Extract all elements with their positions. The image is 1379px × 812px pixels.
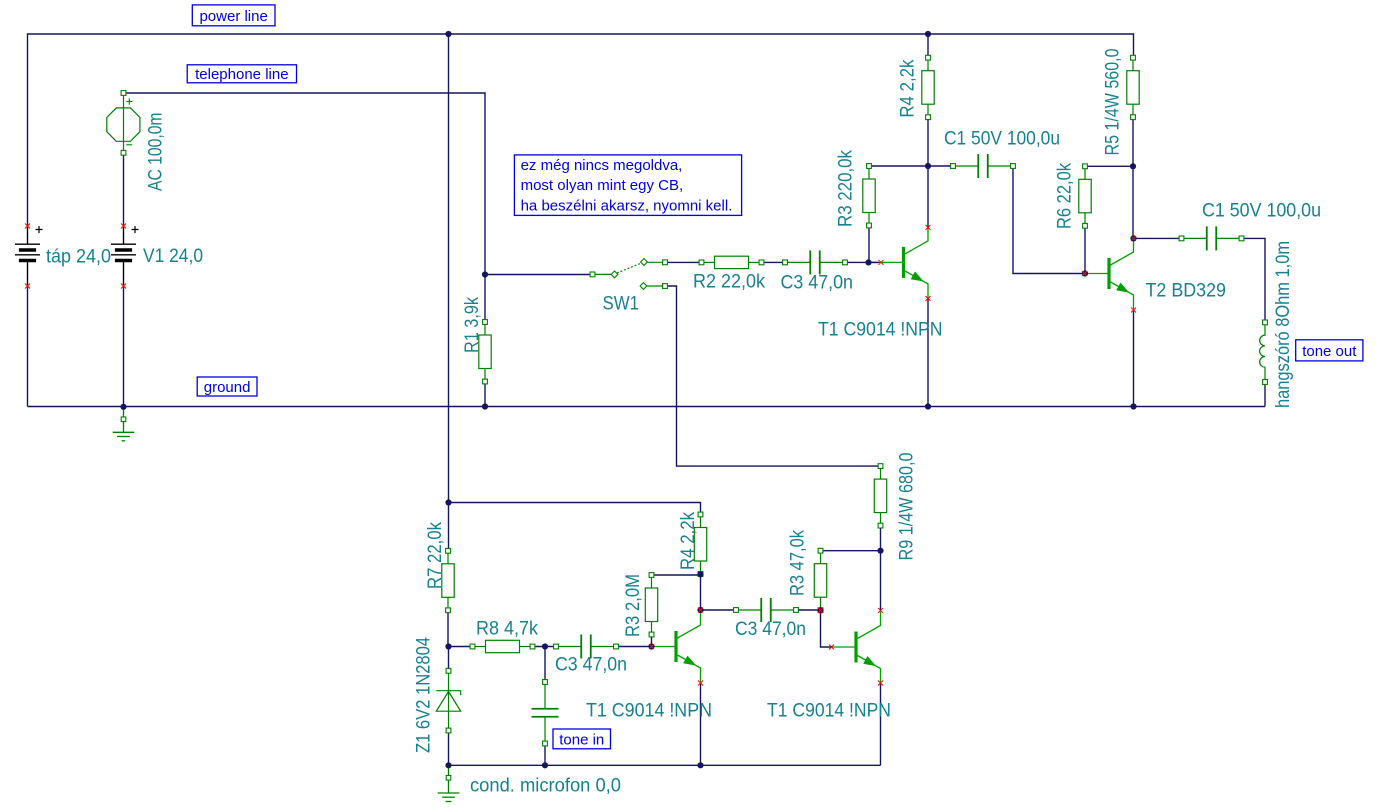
svg-text:R6 22,0k: R6 22,0k <box>1055 163 1076 229</box>
wire R3 top to node <box>652 574 701 576</box>
junction node 7 <box>1130 235 1136 241</box>
pin mark x 17 <box>818 608 823 613</box>
junction node 6 <box>1130 163 1136 169</box>
wire T1 emitter to ground <box>927 299 929 407</box>
svg-text:AC 100,0m: AC 100,0m <box>146 113 167 192</box>
wire R3 to node <box>869 165 928 167</box>
wire R5 bottom to T2 collector node <box>1132 117 1134 238</box>
wire R4 top to power line <box>927 34 929 58</box>
capacitor C1 50V 100,0u interstage <box>953 154 1013 178</box>
wire R9 to node <box>880 526 882 551</box>
svg-text:R4 2,2k: R4 2,2k <box>898 59 919 117</box>
junction node 5 <box>925 163 931 169</box>
svg-text:most olyan mint egy CB,: most olyan mint egy CB, <box>521 177 684 194</box>
net label tone out <box>1296 340 1363 361</box>
svg-text:telephone line: telephone line <box>195 66 288 83</box>
AC source AC 100,0m <box>107 93 140 153</box>
wire R6 bottom to T2 base node <box>1084 226 1086 274</box>
resistor R9 1/4W 680,0 <box>874 466 886 525</box>
zener diode Z1 6V2 1N2804 <box>436 671 460 731</box>
wire ground line <box>28 406 1266 408</box>
wire vertical bus to lower stage <box>448 34 450 503</box>
svg-text:R5 1/4W 560,0: R5 1/4W 560,0 <box>1103 49 1124 156</box>
resistor R7 22,0k <box>442 551 454 611</box>
wire C3 to R3 node <box>796 609 821 611</box>
pin mark x 6 <box>926 225 931 230</box>
pin mark x 16 <box>878 681 883 686</box>
svg-text:T1 C9014 !NPN: T1 C9014 !NPN <box>767 701 891 722</box>
capacitor C3 47,0n coupling <box>785 250 845 274</box>
wire R4 bottom to node <box>927 117 929 166</box>
capacitor C3 47,0n lower interstage <box>736 598 796 622</box>
resistor R3 220,0k <box>863 166 875 226</box>
wire Q2 collector node to C3 <box>701 609 737 611</box>
pin mark x 5 <box>879 260 884 265</box>
pin mark x 7 <box>926 296 931 301</box>
wire R3 bottom to Q2 base node <box>651 635 653 647</box>
wire R7 to R8 node <box>447 610 449 646</box>
net label ground <box>197 377 257 396</box>
svg-text:R9 1/4W 680,0: R9 1/4W 680,0 <box>897 453 918 561</box>
svg-text:tone out: tone out <box>1302 343 1357 360</box>
ground symbol V1 <box>113 407 135 441</box>
wire V1 battery to ground <box>123 286 125 407</box>
svg-text:ez még nincs megoldva,: ez még nincs megoldva, <box>521 157 683 174</box>
svg-text:cond. microfon 0,0: cond. microfon 0,0 <box>470 776 621 797</box>
svg-text:ha beszélni akarsz, nyomni kel: ha beszélni akarsz, nyomni kell. <box>521 198 733 215</box>
resistor R5 1/4W 560,0 <box>1127 58 1139 117</box>
svg-text:tone in: tone in <box>559 731 604 748</box>
wire R9 node to Q3 collector <box>880 551 882 611</box>
wire R3 bottom to T1 base node <box>869 226 879 262</box>
junction node 21 <box>445 762 451 768</box>
svg-text:R2 22,0k: R2 22,0k <box>693 271 765 292</box>
svg-text:R8 4,7k: R8 4,7k <box>476 619 538 640</box>
svg-text:T2 BD329: T2 BD329 <box>1146 281 1227 302</box>
wire Q3 emitter to bottom rail <box>880 683 882 765</box>
battery V1 24,0 <box>111 226 139 286</box>
wire node to C1 <box>928 165 953 167</box>
junction node 8 <box>1082 270 1088 276</box>
capacitor C3 47,0n mic coupling <box>556 635 616 659</box>
svg-text:hangszóró 8Ohm 1,0m: hangszóró 8Ohm 1,0m <box>1273 241 1294 408</box>
wire C3 to T1 base node <box>845 261 879 263</box>
wire node to Z1 <box>448 647 450 671</box>
wire C3 to Q2 base node <box>616 646 652 648</box>
switch SW1 <box>593 262 666 286</box>
junction node 4 <box>865 259 871 265</box>
ground symbol lower <box>438 765 460 801</box>
pin mark x 11 <box>649 644 654 649</box>
junction node 22 <box>542 762 548 768</box>
svg-text:C1 50V 100,0u: C1 50V 100,0u <box>944 129 1060 150</box>
pin mark x 14 <box>829 645 834 650</box>
junction node 16 <box>648 643 654 649</box>
capacitor tone in <box>532 682 559 744</box>
wire R8 to C3 node <box>533 646 557 648</box>
pin mark x 8 <box>1082 271 1087 276</box>
wire R3 top to R9 node <box>821 550 881 552</box>
note box annotation <box>514 155 741 216</box>
junction node 10 <box>482 403 488 409</box>
junction node 23 <box>697 762 703 768</box>
resistor R6 22,0k <box>1079 166 1091 226</box>
junction node 1 <box>445 31 451 37</box>
resistor R8 4,7k <box>473 640 533 652</box>
net label telephone line <box>187 65 296 83</box>
wire R5 R6 node <box>1085 165 1133 167</box>
wire T2 emitter to ground <box>1133 310 1135 407</box>
wire tap battery to ground <box>27 286 29 407</box>
svg-text:Z1 6V2 1N2804: Z1 6V2 1N2804 <box>414 637 435 753</box>
junction node 14 <box>445 643 451 649</box>
wire power line <box>28 34 1134 226</box>
wire node to Q3 base <box>821 610 832 647</box>
wire bottom rail <box>449 764 881 766</box>
junction node 13 <box>445 499 451 505</box>
resistor R4 2,2k top <box>922 58 934 117</box>
pin mark x 10 <box>1131 308 1136 313</box>
pin mark x 2 <box>25 284 30 289</box>
wire node to R7 <box>448 503 450 551</box>
svg-text:C3 47,0n: C3 47,0n <box>781 273 854 294</box>
wire lower stage top rail <box>449 503 701 515</box>
wire C1 out to speaker <box>1242 238 1266 322</box>
svg-text:R3 47,0k: R3 47,0k <box>788 530 809 596</box>
svg-text:táp 24,0: táp 24,0 <box>46 247 111 268</box>
junction node 2 <box>925 31 931 37</box>
transistor T1 C9014 upper <box>879 227 928 298</box>
resistor R2 22,0k <box>702 256 762 268</box>
svg-text:SW1: SW1 <box>603 294 640 315</box>
wire R8 node left <box>449 646 473 648</box>
svg-text:R7 22,0k: R7 22,0k <box>425 522 446 589</box>
svg-text:C3 47,0n: C3 47,0n <box>555 655 627 676</box>
pin mark x 1 <box>25 224 30 229</box>
wire SW1 throw1 to R2 <box>667 261 702 263</box>
wire node to mic capacitor <box>544 647 546 683</box>
speaker hangszoro 8Ohm <box>1260 322 1265 382</box>
transistor T1 C9014 lower second <box>832 612 881 683</box>
wire node to SW1 common <box>485 274 591 276</box>
svg-text:V1 24,0: V1 24,0 <box>143 246 203 267</box>
svg-text:C3 47,0n: C3 47,0n <box>735 619 806 640</box>
net label tone in <box>553 729 611 749</box>
wire SW1 throw2 to lower stage <box>667 286 881 466</box>
wire Q2 emitter to bottom rail <box>700 683 702 765</box>
svg-text:power line: power line <box>199 8 267 25</box>
junction node 20 <box>877 548 883 554</box>
battery tap 24,0 <box>15 226 43 286</box>
pin mark x 12 <box>698 608 703 613</box>
svg-text:T1 C9014 !NPN: T1 C9014 !NPN <box>818 320 943 341</box>
junction node 18 <box>697 607 703 613</box>
wire Z1 to bottom rail <box>448 731 450 766</box>
wire T2 collector node to C1 out <box>1134 237 1182 239</box>
wire AC to V1 battery <box>123 153 125 226</box>
svg-text:T1 C9014 !NPN: T1 C9014 !NPN <box>586 701 712 722</box>
pin mark x 13 <box>698 681 703 686</box>
junction node 12 <box>1130 403 1136 409</box>
svg-text:R3 220,0k: R3 220,0k <box>836 150 857 227</box>
resistor R3 47,0k <box>814 551 826 611</box>
svg-text:R4 2,2k: R4 2,2k <box>678 512 699 570</box>
wire T1 collector to node <box>927 166 929 228</box>
capacitor C1 50V 100,0u output <box>1182 226 1242 250</box>
pin mark x 15 <box>878 608 883 613</box>
junction node 3 <box>482 271 488 277</box>
resistor R1 3,9k <box>479 322 491 382</box>
wire speaker to ground <box>1264 382 1266 407</box>
pin mark x 4 <box>121 284 126 289</box>
junction node 15 <box>542 643 548 649</box>
wire R1 to ground <box>484 382 486 407</box>
svg-text:R3 2,0M: R3 2,0M <box>623 574 644 637</box>
svg-text:ground: ground <box>204 379 251 396</box>
resistor R3 2,0M <box>645 575 657 635</box>
wire mic capacitor to bottom rail <box>544 744 546 766</box>
wire node to R1 <box>484 275 486 323</box>
transistor T1 C9014 lower first <box>652 611 701 682</box>
wire C1 to T2 base node <box>1013 166 1085 274</box>
wire Q2 collector to node <box>700 574 702 610</box>
transistor T2 BD329 <box>1085 238 1134 309</box>
junction node 9 <box>120 404 126 410</box>
junction node 17 <box>697 571 703 577</box>
svg-text:R1 3,9k: R1 3,9k <box>462 297 483 353</box>
pin mark x 9 <box>1131 236 1136 241</box>
wire telephone line <box>124 93 486 275</box>
svg-text:C1 50V 100,0u: C1 50V 100,0u <box>1202 201 1321 222</box>
junction node 19 <box>817 607 823 613</box>
net label power line <box>192 5 275 26</box>
wire R2 to C3 <box>762 261 786 263</box>
pin mark x 3 <box>121 224 126 229</box>
resistor R4 2,2k lower <box>694 515 706 575</box>
junction node 11 <box>925 403 931 409</box>
